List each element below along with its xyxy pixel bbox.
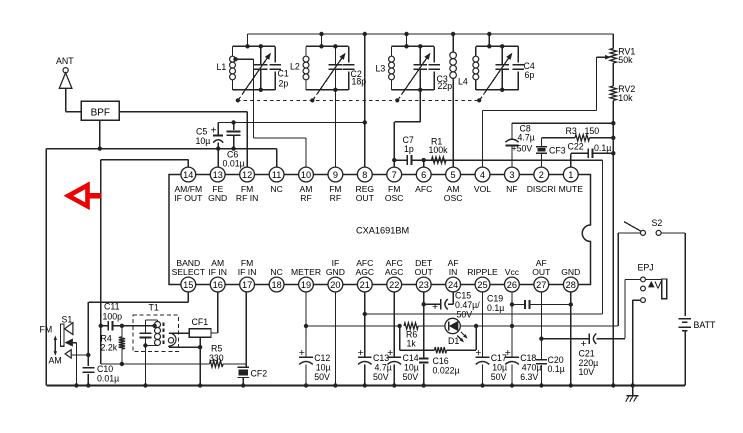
svg-text:22: 22 [389, 280, 399, 290]
wire: bus drop to tank 3 [406, 34, 408, 46]
gang line link of tank 3 [398, 92, 404, 100]
svg-text:0.1µ: 0.1µ [487, 303, 504, 313]
svg-text:L2: L2 [290, 62, 300, 72]
svg-text:ANT: ANT [56, 56, 74, 66]
wire: pin 28 GND down to bus [570, 292, 572, 386]
svg-text:RF: RF [330, 193, 341, 203]
variable capacitor of tank 3 [419, 46, 421, 64]
variable capacitor of tank 1 [260, 46, 262, 64]
svg-text:27: 27 [536, 280, 546, 290]
wire: BPF output to pin 12 FM RF IN [119, 111, 247, 113]
svg-text:2: 2 [539, 170, 544, 180]
svg-text:10µ: 10µ [196, 136, 211, 146]
svg-text:0.01µ: 0.01µ [97, 374, 119, 384]
svg-text:GND: GND [208, 193, 227, 203]
svg-text:2p: 2p [279, 79, 289, 89]
wire: T1 secondary top to CF1 [169, 332, 189, 334]
svg-text:SELECT: SELECT [172, 267, 206, 277]
S1 AM contact [65, 350, 71, 358]
svg-text:OUT: OUT [532, 267, 551, 277]
pin 4 VOL [475, 167, 490, 182]
resistor R5 330 [210, 361, 224, 367]
wire: bus drop to tank 1 [247, 34, 249, 46]
svg-text:AGC: AGC [385, 267, 404, 277]
wire: CF1 out to pin 16 AM IF IN [211, 332, 218, 334]
wire: pin 20 IF GND to bus [334, 292, 336, 386]
pin 19 METER [299, 277, 314, 292]
svg-text:CXA1691BM: CXA1691BM [356, 226, 409, 236]
LED D1 tuning indicator [445, 318, 460, 333]
svg-text:19: 19 [301, 280, 311, 290]
pin 26 Vcc [505, 277, 520, 292]
svg-text:C14: C14 [403, 353, 419, 363]
svg-text:15: 15 [183, 280, 193, 290]
capacitor C20 0.1u on pin 27 AF OUT [540, 292, 542, 360]
svg-text:16: 16 [213, 280, 223, 290]
svg-text:METER: METER [291, 267, 321, 277]
svg-text:10V: 10V [579, 367, 595, 377]
svg-text:OUT: OUT [415, 267, 434, 277]
T1 core marks [162, 323, 164, 327]
variable capacitor of tank 4 [501, 46, 503, 64]
wire: pin 14 AM/FM IF OUT to C11 and IF rail [187, 160, 189, 168]
svg-text:+: + [358, 347, 364, 359]
svg-text:0.022µ: 0.022µ [433, 366, 460, 376]
node: R6 left junction [397, 324, 401, 328]
svg-text:Vcc: Vcc [505, 267, 520, 277]
svg-text:330: 330 [209, 353, 224, 363]
wire: tank2 varcap to pin 9 FM RF [334, 90, 336, 167]
svg-text:7: 7 [392, 170, 397, 180]
svg-text:50k: 50k [618, 55, 633, 65]
capacitor C6 0.01u [231, 120, 235, 124]
inductor L4 [473, 56, 479, 80]
svg-text:CF1: CF1 [192, 317, 209, 327]
pin 24 AF IN [446, 277, 461, 292]
band pass filter BPF [81, 101, 119, 120]
capacitor C18 470&#181; 6.3V [505, 356, 519, 358]
svg-text:21: 21 [360, 280, 370, 290]
node: D1 right junction [474, 324, 478, 328]
svg-text:+: + [475, 347, 481, 359]
svg-text:L3: L3 [376, 64, 386, 74]
svg-text:9: 9 [333, 170, 338, 180]
svg-text:OSC: OSC [444, 193, 463, 203]
wire: upper ground wire to pin 11 [46, 148, 276, 150]
capacitor C3 22p [433, 46, 435, 62]
ceramic discriminator CF3 on pin 2 DISCRI [540, 153, 542, 167]
svg-text:10k: 10k [618, 93, 633, 103]
svg-text:IN: IN [449, 267, 458, 277]
wire: bus drop to tank 2 [321, 34, 323, 46]
wire: C21 to earphone jack EPJ tip [624, 279, 626, 338]
node: C11 right / R4 junction [120, 324, 124, 328]
pin 25 RIPPLE [475, 277, 490, 292]
svg-text:MUTE: MUTE [559, 184, 584, 194]
pin 12 FM RF IN [240, 167, 255, 182]
gang line link of tank 1 [238, 92, 244, 100]
svg-text:BPF: BPF [91, 107, 110, 118]
svg-text:50V: 50V [314, 372, 330, 382]
svg-text:5: 5 [451, 170, 456, 180]
svg-text:100p: 100p [103, 312, 123, 322]
capacitor C18 470u on pin 26 Vcc [511, 292, 513, 357]
svg-text:2.2k: 2.2k [101, 343, 118, 353]
capacitor C21 220u output coupling [541, 338, 589, 340]
pin 15 BAND SELECT [181, 277, 196, 292]
capacitor C10 0.01u [87, 355, 89, 366]
svg-text:11: 11 [272, 170, 282, 180]
wire: AFC line pin 6 to pin 21 around right side [394, 159, 407, 161]
svg-text:28: 28 [566, 280, 576, 290]
svg-text:+: + [299, 347, 305, 359]
svg-text:6p: 6p [525, 70, 535, 80]
inductor L1 tap wire to pin 10 AM RF [233, 57, 237, 61]
svg-text:+50V: +50V [512, 144, 533, 154]
S1 common contact [65, 338, 73, 346]
svg-text:IF OUT: IF OUT [174, 193, 203, 203]
node: S1 AM contact / C10 junction [86, 353, 90, 357]
wire: top supply bus [248, 33, 614, 35]
svg-text:L1: L1 [217, 62, 227, 72]
svg-text:EPJ: EPJ [638, 263, 654, 273]
node: C11 left junction on IF-out line [99, 324, 103, 328]
capacitor C8 4.7u on pin 3 NF [512, 122, 613, 124]
pin 9 FM RF [328, 167, 343, 182]
T1 primary winding [145, 319, 157, 321]
svg-text:4.7µ: 4.7µ [518, 133, 535, 143]
variable capacitor of tank 2 [334, 46, 336, 64]
capacitor C14 10&#181; 50V [388, 356, 402, 358]
T1 secondary winding [169, 333, 176, 346]
node: C6 ground junction [231, 146, 235, 150]
transformer T1 dashed enclosure [133, 315, 179, 352]
svg-text:CF2: CF2 [251, 369, 268, 379]
wire: left ground rail from pin-11 wire down to bottom bus [45, 149, 47, 386]
svg-text:D1: D1 [448, 336, 459, 346]
svg-text:C5: C5 [196, 127, 207, 137]
tank circuit 1 with L1 and C1 [233, 45, 276, 47]
node: T1 tap from C11 [152, 324, 156, 328]
resistor R4 2.2k [121, 326, 123, 337]
svg-text:+: + [211, 126, 217, 137]
svg-text:R3: R3 [566, 126, 577, 136]
capacitor C1 2p [274, 46, 276, 62]
svg-text:3: 3 [509, 170, 514, 180]
pin 22 AFC AGC [387, 277, 402, 292]
svg-text:0.47µ/: 0.47µ/ [455, 300, 480, 310]
svg-text:17: 17 [242, 280, 252, 290]
svg-text:24: 24 [448, 280, 458, 290]
pin 16 AM IF IN [210, 277, 225, 292]
svg-text:8: 8 [362, 170, 367, 180]
svg-text:18p: 18p [352, 77, 367, 87]
svg-text:S2: S2 [652, 218, 663, 228]
pin 13 FE GND [210, 167, 225, 182]
pin 18 NC [269, 277, 284, 292]
red arrow marker pointing at IF-out line [68, 185, 101, 206]
svg-text:L4: L4 [458, 77, 468, 87]
ceramic filter CF2 on pin 17 FM IF IN [245, 292, 247, 368]
svg-text:+: + [505, 347, 511, 359]
svg-text:1: 1 [568, 170, 573, 180]
inductor L1 [230, 56, 236, 80]
svg-text:+: + [387, 347, 393, 359]
wire: pin 22 AFC AGC down to C14 [393, 292, 395, 357]
svg-text:DISCRI: DISCRI [527, 184, 556, 194]
gang line link of tank 4 [480, 92, 486, 100]
svg-text:RF: RF [300, 193, 311, 203]
svg-text:150: 150 [585, 126, 600, 136]
svg-text:NC: NC [270, 184, 282, 194]
gang line link of tank 2 [313, 92, 319, 100]
svg-text:C12: C12 [314, 353, 330, 363]
svg-text:C19: C19 [487, 294, 503, 304]
pin 11 NC [269, 167, 284, 182]
tank circuit 2 with L2 and C2 [306, 45, 349, 47]
svg-text:14: 14 [183, 170, 193, 180]
svg-text:0.1µ: 0.1µ [548, 364, 565, 374]
resistor R1 100k [432, 157, 447, 163]
S1 FM contact [65, 323, 73, 335]
node: C5 / pin13 FE GND junction [216, 146, 220, 150]
potentiometer RV1 50k [612, 34, 614, 48]
pin 21 AFC AGC [357, 277, 372, 292]
svg-text:0.01µ: 0.01µ [223, 159, 245, 169]
wire: S1 common to ground bus [73, 342, 77, 344]
capacitor C19 0.1u between Vcc and GND [512, 304, 525, 306]
wire: pin 19 METER down to C12 [305, 292, 307, 357]
pin 27 AF OUT [534, 277, 549, 292]
pin 2 DISCRI [534, 167, 549, 182]
capacitor C13 4.7&#181; 50V [358, 356, 372, 358]
potentiometer RV2 10k [612, 63, 614, 86]
svg-text:VOL: VOL [474, 184, 491, 194]
pin 14 AM/FM IF OUT [181, 167, 196, 182]
battery BATT [678, 318, 690, 320]
wire: T1 to ground bus [144, 345, 146, 385]
svg-text:18: 18 [271, 280, 281, 290]
svg-text:25: 25 [477, 280, 487, 290]
svg-text:1k: 1k [407, 339, 417, 349]
capacitor C16 0.022u on pin 23 DET OUT [423, 292, 425, 358]
pin 10 AM RF [299, 167, 314, 182]
capacitor C15 0.47u coupling DET OUT to AF IN [424, 303, 441, 305]
svg-text:CF3: CF3 [549, 146, 566, 156]
capacitor C7 1p [406, 155, 408, 165]
wire: ground bus at bottom [46, 385, 685, 387]
svg-text:BATT: BATT [694, 320, 716, 330]
pin 6 AFC [416, 167, 431, 182]
node: BPF ground junction [98, 146, 102, 150]
wire: S2 to Vcc line [618, 232, 640, 234]
svg-text:IF IN: IF IN [208, 267, 227, 277]
wire: right ground rail [612, 101, 614, 386]
svg-text:50V: 50V [491, 372, 507, 382]
svg-text:AFC: AFC [415, 184, 432, 194]
wire: pin 8 REG OUT up to top bus [364, 34, 366, 167]
pin 20 IF GND [328, 277, 343, 292]
svg-text:12: 12 [242, 170, 252, 180]
node: T1 ground junction [143, 343, 147, 347]
svg-text:+: + [432, 301, 438, 313]
capacitor C11 100p [101, 325, 108, 327]
resistor parallel to R6 and D1 [399, 326, 401, 350]
capacitor C5 10u electrolytic [217, 122, 219, 135]
pin 28 GND [563, 277, 578, 292]
wire: S2 to battery [661, 232, 685, 234]
svg-text:C11: C11 [104, 302, 120, 312]
IC CXA1691BM body [169, 175, 591, 285]
T1 primary tuning capacitor [144, 329, 146, 333]
resistor R3 150 [541, 137, 575, 139]
svg-text:V: V [655, 280, 662, 292]
svg-text:NC: NC [270, 267, 282, 277]
svg-text:13: 13 [213, 170, 223, 180]
node: pin 7 junction with C7 [392, 158, 396, 162]
capacitor C17 10&#181; 50V [476, 356, 490, 358]
svg-text:1p: 1p [404, 144, 414, 154]
pin 3 NF [505, 167, 520, 182]
wire: LED line to pin 26 Vcc and switch S2 [476, 325, 618, 327]
svg-text:C18: C18 [520, 353, 536, 363]
svg-text:C16: C16 [433, 356, 449, 366]
D1 light emission arrows [461, 332, 466, 337]
svg-text:RIPPLE: RIPPLE [467, 267, 498, 277]
svg-text:C10: C10 [97, 364, 113, 374]
svg-text:23: 23 [419, 280, 429, 290]
resistor R6 1k [404, 323, 418, 329]
svg-text:RF IN: RF IN [236, 193, 258, 203]
svg-text:22p: 22p [438, 81, 453, 91]
svg-text:6: 6 [421, 170, 426, 180]
svg-text:4: 4 [480, 170, 485, 180]
svg-text:R5: R5 [211, 344, 222, 354]
svg-text:6.3V: 6.3V [520, 372, 538, 382]
svg-text:C22: C22 [568, 142, 584, 152]
svg-text:GND: GND [561, 267, 580, 277]
svg-text:0.1µ: 0.1µ [594, 143, 611, 153]
svg-text:S1: S1 [62, 315, 73, 325]
pin 1 MUTE [563, 167, 578, 182]
pin 17 FM IF IN [240, 277, 255, 292]
capacitor C12 10&#181; 50V [299, 356, 313, 358]
inductor L3 [389, 56, 395, 80]
capacitor C17 10u on pin 25 RIPPLE [482, 292, 484, 357]
svg-text:AM: AM [49, 356, 62, 366]
svg-text:T1: T1 [149, 303, 159, 313]
svg-text:AGC: AGC [355, 267, 374, 277]
svg-text:OUT: OUT [356, 193, 375, 203]
node: pin 6 AFC junction [422, 158, 426, 162]
capacitor C2 18p [348, 46, 350, 62]
svg-text:26: 26 [507, 280, 517, 290]
svg-text:C1: C1 [278, 69, 289, 79]
pin 8 REG OUT [357, 167, 372, 182]
svg-text:100k: 100k [429, 145, 449, 155]
wire: pin 13 FE GND stub [217, 149, 219, 168]
wire: pin 15 BAND SELECT to switch S1 and C10 [187, 292, 189, 302]
pin 23 DET OUT [416, 277, 431, 292]
wire: METER LED line [306, 325, 400, 327]
wire: regulator rail from C5 to pin 8 [218, 121, 365, 123]
ceramic filter CF1 [189, 329, 211, 337]
tank circuit 3 with L3 and C3 [392, 45, 435, 47]
inductor L4 AM OSC coil to pin 5 [452, 34, 454, 52]
svg-text:50V: 50V [457, 310, 473, 320]
svg-text:50V: 50V [403, 372, 419, 382]
ground symbol [611, 383, 615, 387]
svg-text:IF IN: IF IN [238, 267, 257, 277]
inductor L2 [303, 56, 309, 80]
svg-text:FM: FM [40, 325, 53, 335]
wire: CF1 ground lead [199, 337, 201, 386]
wire: pin 21 AFC AGC down to C13 [364, 292, 366, 357]
wire: EPJ sleeve to ground [645, 299, 661, 301]
dashed tuning gang line [237, 99, 481, 101]
tank circuit 4 with L4 and C4 [476, 45, 519, 47]
svg-text:10: 10 [301, 170, 311, 180]
svg-text:GND: GND [326, 267, 345, 277]
wire: bus drop to tank 4 [488, 34, 490, 46]
RV1 wiper arrow to pin 4 VOL [597, 56, 609, 58]
svg-text:OSC: OSC [385, 193, 404, 203]
wire: T1 secondary bottom to CF1 ground side [168, 346, 170, 347]
pin 7 FM OSC [387, 167, 402, 182]
capacitor C4 6p [517, 46, 519, 62]
svg-text:NF: NF [506, 184, 517, 194]
pin 5 AM OSC [446, 167, 461, 182]
svg-text:C15: C15 [455, 291, 471, 301]
wire: BPF bottom to ground [99, 120, 101, 149]
node: METER line junction [304, 324, 308, 328]
svg-text:20: 20 [330, 280, 340, 290]
svg-text:50V: 50V [373, 372, 389, 382]
wire: tank3 varcap to pin 7 FM OSC [419, 90, 421, 122]
node: pin 8 REG OUT junction on rail [363, 120, 367, 124]
capacitor C22 0.1u on pin 1 MUTE [570, 153, 572, 167]
